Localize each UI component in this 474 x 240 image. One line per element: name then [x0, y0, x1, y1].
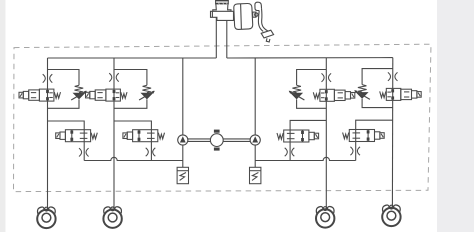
isolation valve V2 [86, 89, 128, 101]
wheel brake W4 [382, 205, 400, 226]
orifice O2 [109, 73, 119, 81]
right return rail with jump over channel-3 line [255, 157, 356, 160]
pump P1 to reservoir wire [182, 145, 184, 167]
pump P1 [178, 135, 188, 145]
check/relief valve CV3 [289, 85, 305, 100]
dump valve V7 feed wire [290, 120, 326, 130]
orifice O5 [79, 148, 89, 156]
bypass branch wire group 4 [362, 69, 393, 85]
pump P2 [250, 135, 260, 145]
dump valve V5 [56, 130, 98, 142]
orifice O3 [322, 73, 332, 81]
bypass return wire group 3 [297, 99, 327, 108]
bypass branch wire group 1 [48, 70, 80, 86]
wheel brake W1 [37, 207, 55, 228]
master cylinder body flange line [211, 11, 213, 17]
orifice O7 [285, 148, 295, 156]
dashed enclosure border [14, 44, 432, 191]
channel 3 main line (bus to wheel 3) [325, 58, 327, 209]
dump valve V6 feed wire [114, 121, 151, 130]
pump P2 to reservoir wire [254, 145, 256, 167]
check/relief valve CV4 [354, 85, 370, 100]
wheel brake W2 [103, 207, 121, 228]
bypass return wire group 2 [114, 99, 147, 108]
dump valve V8 [343, 130, 385, 142]
push rod and pin [253, 12, 258, 17]
orifice O1 [43, 74, 53, 82]
dump valve V7 [277, 130, 319, 142]
wheel brake W3 [316, 206, 334, 227]
orifice O4 [388, 72, 398, 80]
vacuum booster [234, 3, 253, 29]
channel 1 main line (bus to wheel 1) [47, 58, 49, 209]
reservoir T2 [250, 167, 261, 183]
dump valve V5 feed wire [48, 121, 85, 130]
motor M [210, 130, 223, 151]
orifice O8 [350, 147, 360, 155]
right supply bus [227, 57, 393, 59]
dump valve V5 outlet wire [83, 130, 85, 161]
channel 2 main line (bus to wheel 2) [113, 58, 115, 209]
dump valve V7 outlet wire [289, 130, 291, 161]
orifice O6 [146, 148, 156, 156]
vacuum booster plate line [240, 4, 243, 29]
pump P1 suction/pressure line [182, 58, 184, 135]
check/relief valve CV2 [139, 85, 155, 100]
isolation valve V4 [380, 88, 422, 100]
brake pedal lever [255, 2, 274, 42]
bypass branch wire group 2 [114, 70, 147, 86]
drive shaft right [223, 139, 250, 142]
master cylinder body [211, 11, 234, 20]
bypass return wire group 4 [362, 99, 392, 108]
dump valve V6 outlet wire [150, 130, 152, 161]
reservoir T1 [177, 167, 188, 183]
master cylinder reservoir neck [213, 4, 231, 11]
bypass return wire group 1 [48, 99, 80, 108]
drive shaft left [188, 139, 211, 142]
master cylinder outlet line left [215, 17, 217, 58]
pump P2 suction/pressure line [254, 58, 256, 135]
dump valve V8 feed wire [356, 120, 393, 129]
isolation valve V3 [313, 89, 355, 101]
dump valve V6 [123, 130, 165, 142]
dump valve V8 outlet wire [355, 130, 357, 161]
check/relief valve CV1 [71, 85, 87, 100]
left return rail with jump over channel-2 line [84, 157, 183, 160]
left supply bus [48, 57, 217, 59]
master cylinder reservoir cap (hatched) [215, 0, 229, 4]
bypass branch wire group 3 [297, 70, 327, 86]
master cylinder outlet line right [226, 20, 228, 58]
channel 4 main line (bus to wheel 4) [391, 58, 393, 207]
isolation valve V1 [19, 89, 61, 101]
